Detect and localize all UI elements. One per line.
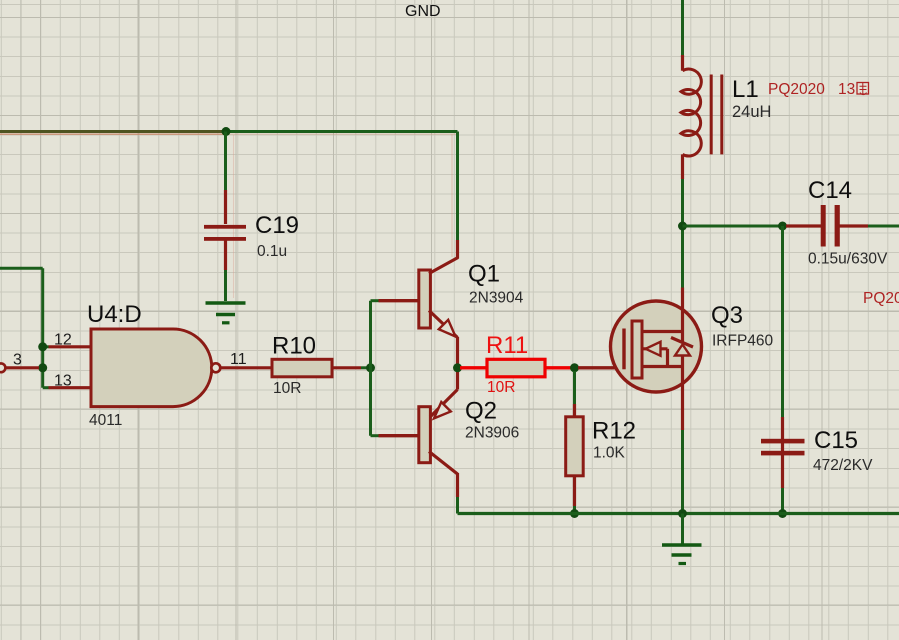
node emitter junction: [453, 363, 462, 372]
wire C14 node down to C15: [781, 226, 784, 417]
node L1/Q3 junction: [678, 222, 687, 231]
svg-text:3: 3: [13, 352, 22, 369]
ground (main): [662, 545, 702, 564]
svg-text:11: 11: [230, 351, 247, 368]
svg-text:2N3904: 2N3904: [469, 290, 524, 307]
node C14/C15 junction: [778, 222, 787, 231]
nand gate U4:D body: [91, 329, 212, 407]
wire C14 right to edge: [868, 225, 899, 228]
wire base tie vertical: [371, 301, 379, 436]
ghost line Q1 collector: [451, 134, 453, 257]
wire C19 top: [224, 132, 227, 191]
node C15 rail junction: [778, 509, 787, 518]
svg-text:1.0K: 1.0K: [593, 445, 626, 462]
node R12 rail junction: [570, 509, 579, 518]
node rail ground junction: [678, 509, 687, 518]
node C19 junction: [222, 127, 231, 136]
svg-text:R10: R10: [272, 333, 316, 360]
U4:D output bubble: [211, 363, 220, 372]
svg-text:C14: C14: [808, 177, 852, 204]
wire R12 bottom: [573, 506, 576, 514]
svg-text:U4:D: U4:D: [87, 301, 142, 328]
svg-text:0.1u: 0.1u: [257, 243, 287, 260]
resistor R10: [272, 359, 332, 377]
red note PQ2020 13(CJK): [768, 81, 869, 98]
svg-text:13: 13: [54, 373, 72, 390]
svg-text:10R: 10R: [487, 379, 515, 396]
R10 right lead: [332, 366, 361, 369]
svg-text:C19: C19: [255, 212, 299, 239]
capacitor C15: [761, 417, 805, 488]
wire bottom rail: [458, 512, 899, 515]
wire Q2 collector to rail: [456, 497, 459, 514]
mosfet Q3: [611, 288, 702, 431]
wire C19 to ground: [224, 270, 227, 301]
svg-text:C15: C15: [814, 427, 858, 454]
svg-text:L1: L1: [732, 76, 759, 103]
capacitor C19: [204, 190, 246, 270]
wire left edge into gate inputs: [0, 268, 49, 387]
transistor Q2: [379, 371, 458, 497]
svg-text:R11: R11: [486, 332, 528, 359]
capacitor C14: [786, 205, 868, 247]
wire R10 to base node: [361, 366, 371, 369]
svg-text:Q3: Q3: [711, 302, 743, 329]
ghost line under top wire: [227, 133, 456, 135]
gate U4:C output bubble (pin 3): [0, 363, 5, 372]
resistor R12: [566, 404, 584, 506]
wire to C14 junction: [683, 225, 780, 228]
svg-text:13: 13: [838, 81, 855, 98]
wire ground stub: [681, 514, 684, 544]
wire top horizontal green: [227, 130, 458, 133]
svg-text:GND: GND: [405, 3, 441, 20]
svg-text:24uH: 24uH: [732, 103, 771, 121]
svg-text:2N3906: 2N3906: [465, 425, 519, 442]
wire top rail vertical: [681, 0, 684, 55]
svg-text:PQ20: PQ20: [863, 290, 899, 307]
node base tie junction: [366, 363, 375, 372]
resistor R11 (highlighted): [460, 359, 571, 377]
svg-text:0.15u/630V: 0.15u/630V: [808, 251, 888, 268]
transistor Q1: [379, 240, 459, 364]
wire C15 to rail: [781, 488, 784, 514]
svg-text:472/2KV: 472/2KV: [813, 457, 873, 474]
svg-text:Q2: Q2: [465, 398, 497, 425]
svg-text:10R: 10R: [273, 380, 301, 397]
wire R12 top: [573, 371, 576, 404]
wire Q3 source to rail: [681, 430, 684, 514]
svg-text:12: 12: [54, 332, 72, 349]
node R11 right junction: [570, 363, 579, 372]
wire gate lead to Q3: [578, 366, 624, 369]
ghost line C19: [233, 135, 235, 298]
svg-text:Q1: Q1: [468, 261, 500, 288]
svg-text:PQ2020: PQ2020: [768, 81, 825, 98]
wire top-left olive segment: [0, 132, 227, 135]
wire gate output to R10: [220, 366, 272, 369]
pin 12 lead: [49, 345, 92, 348]
svg-text:IRFP460: IRFP460: [712, 333, 774, 350]
ground (C19): [206, 303, 246, 323]
svg-text:4011: 4011: [89, 412, 122, 429]
wire Q1 collector: [456, 132, 459, 241]
svg-text:R12: R12: [592, 418, 636, 445]
wire pin3 lead: [6, 366, 39, 369]
wire Q3 drain up: [681, 226, 684, 288]
node pin3 junction: [38, 363, 47, 372]
inductor L1: [681, 55, 722, 179]
pin 13 lead: [49, 386, 92, 389]
node pin12 junction: [38, 342, 47, 351]
wire inductor to C14 node: [681, 179, 684, 226]
